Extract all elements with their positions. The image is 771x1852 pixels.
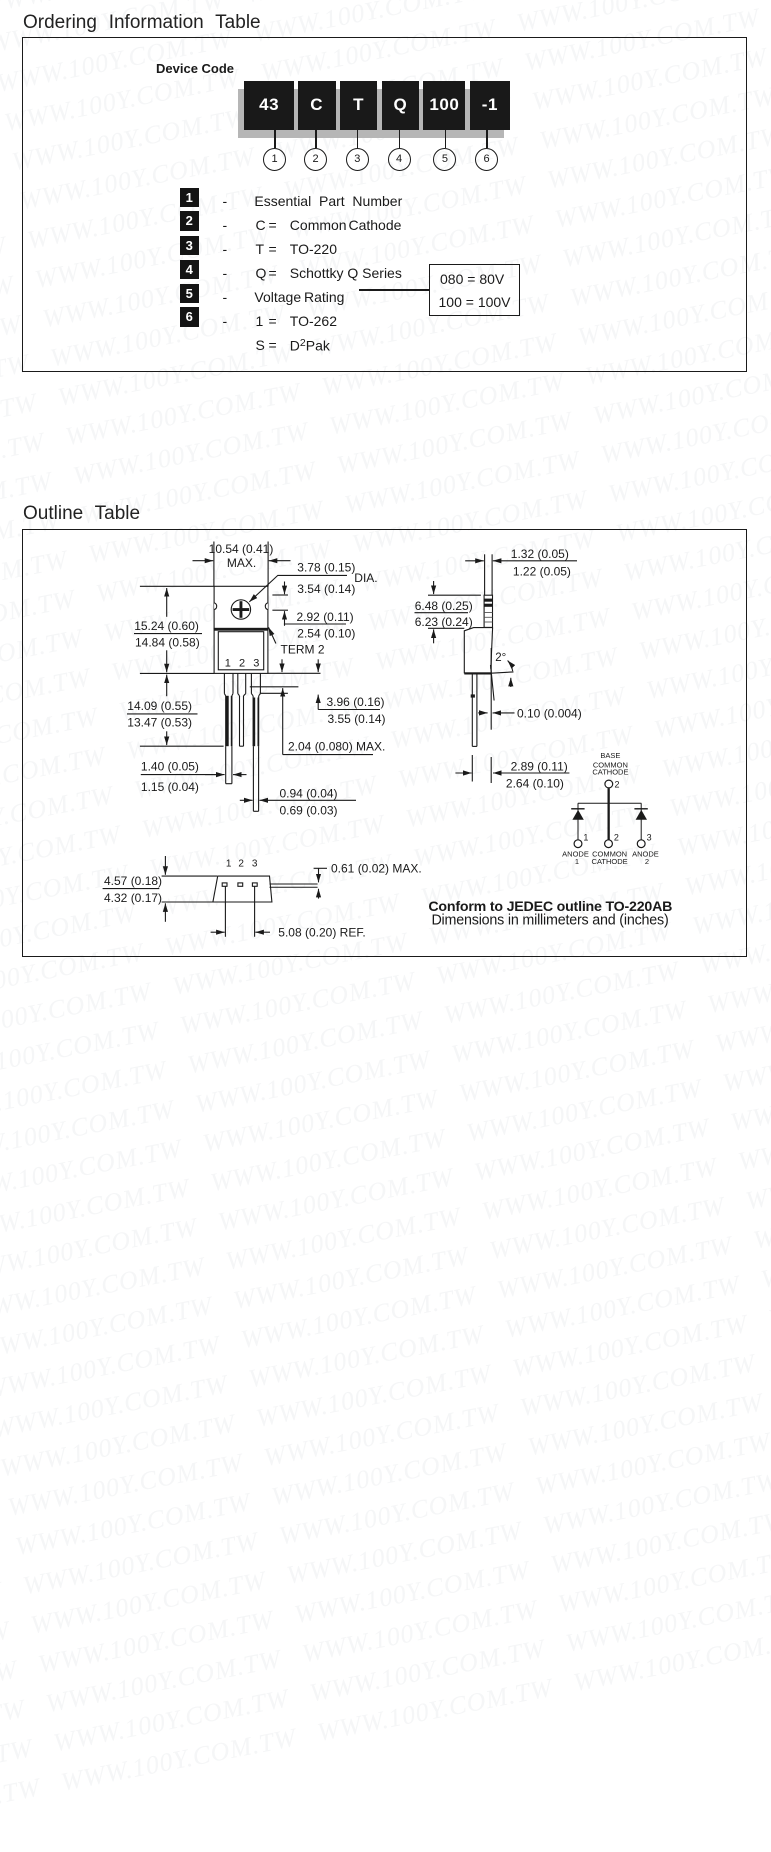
svg-text:1.40 (0.05): 1.40 (0.05) bbox=[141, 760, 199, 774]
svg-text:Dimensions in millimeters and: Dimensions in millimeters and (inches) bbox=[431, 912, 668, 928]
svg-text:2.64 (0.10): 2.64 (0.10) bbox=[506, 777, 564, 791]
svg-text:0.10 (0.004): 0.10 (0.004) bbox=[517, 706, 582, 720]
svg-text:BASE: BASE bbox=[600, 751, 620, 760]
svg-text:3: 3 bbox=[253, 657, 259, 669]
svg-text:14.84 (0.58): 14.84 (0.58) bbox=[135, 635, 200, 649]
svg-text:13.47 (0.53): 13.47 (0.53) bbox=[127, 716, 192, 730]
svg-text:3.78 (0.15): 3.78 (0.15) bbox=[297, 560, 355, 574]
svg-text:1: 1 bbox=[226, 859, 232, 870]
svg-text:TERM 2: TERM 2 bbox=[281, 643, 325, 657]
svg-text:2: 2 bbox=[238, 859, 244, 870]
svg-text:1.15 (0.04): 1.15 (0.04) bbox=[141, 780, 199, 794]
svg-text:5.08 (0.20) REF.: 5.08 (0.20) REF. bbox=[278, 925, 365, 939]
svg-text:3: 3 bbox=[647, 832, 652, 842]
svg-text:1: 1 bbox=[583, 832, 588, 842]
svg-text:2: 2 bbox=[645, 857, 649, 866]
svg-text:CATHODE: CATHODE bbox=[592, 857, 628, 866]
svg-text:3.55 (0.14): 3.55 (0.14) bbox=[328, 712, 386, 726]
svg-text:0.61 (0.02) MAX.: 0.61 (0.02) MAX. bbox=[331, 862, 422, 876]
svg-text:1: 1 bbox=[575, 857, 579, 866]
svg-text:10.54 (0.41): 10.54 (0.41) bbox=[209, 542, 274, 556]
svg-text:6.23 (0.24): 6.23 (0.24) bbox=[415, 615, 473, 629]
svg-text:2.89 (0.11): 2.89 (0.11) bbox=[511, 759, 568, 773]
svg-text:4.32 (0.17): 4.32 (0.17) bbox=[104, 891, 162, 905]
svg-text:2: 2 bbox=[614, 832, 619, 842]
svg-text:4.57 (0.18): 4.57 (0.18) bbox=[104, 874, 162, 888]
svg-text:6.48 (0.25): 6.48 (0.25) bbox=[415, 599, 473, 613]
svg-text:3.54 (0.14): 3.54 (0.14) bbox=[297, 582, 355, 596]
svg-text:1.32 (0.05): 1.32 (0.05) bbox=[511, 547, 569, 561]
svg-text:2: 2 bbox=[615, 780, 620, 790]
svg-text:2°: 2° bbox=[495, 652, 506, 664]
svg-text:2: 2 bbox=[239, 657, 245, 669]
svg-text:3.96 (0.16): 3.96 (0.16) bbox=[327, 695, 385, 709]
svg-text:1: 1 bbox=[225, 657, 231, 669]
svg-text:2.92 (0.11): 2.92 (0.11) bbox=[297, 610, 354, 624]
svg-text:3: 3 bbox=[252, 859, 258, 870]
svg-text:0.94 (0.04): 0.94 (0.04) bbox=[280, 786, 338, 800]
svg-text:15.24 (0.60): 15.24 (0.60) bbox=[134, 619, 199, 633]
svg-text:1.22 (0.05): 1.22 (0.05) bbox=[513, 564, 571, 578]
svg-text:0.69 (0.03): 0.69 (0.03) bbox=[280, 804, 338, 818]
svg-text:DIA.: DIA. bbox=[354, 571, 377, 585]
svg-text:2.54 (0.10): 2.54 (0.10) bbox=[297, 626, 355, 640]
svg-text:CATHODE: CATHODE bbox=[592, 768, 628, 777]
svg-text:14.09 (0.55): 14.09 (0.55) bbox=[127, 699, 192, 713]
svg-text:2.04 (0.080) MAX.: 2.04 (0.080) MAX. bbox=[288, 739, 385, 753]
svg-text:MAX.: MAX. bbox=[227, 556, 256, 570]
